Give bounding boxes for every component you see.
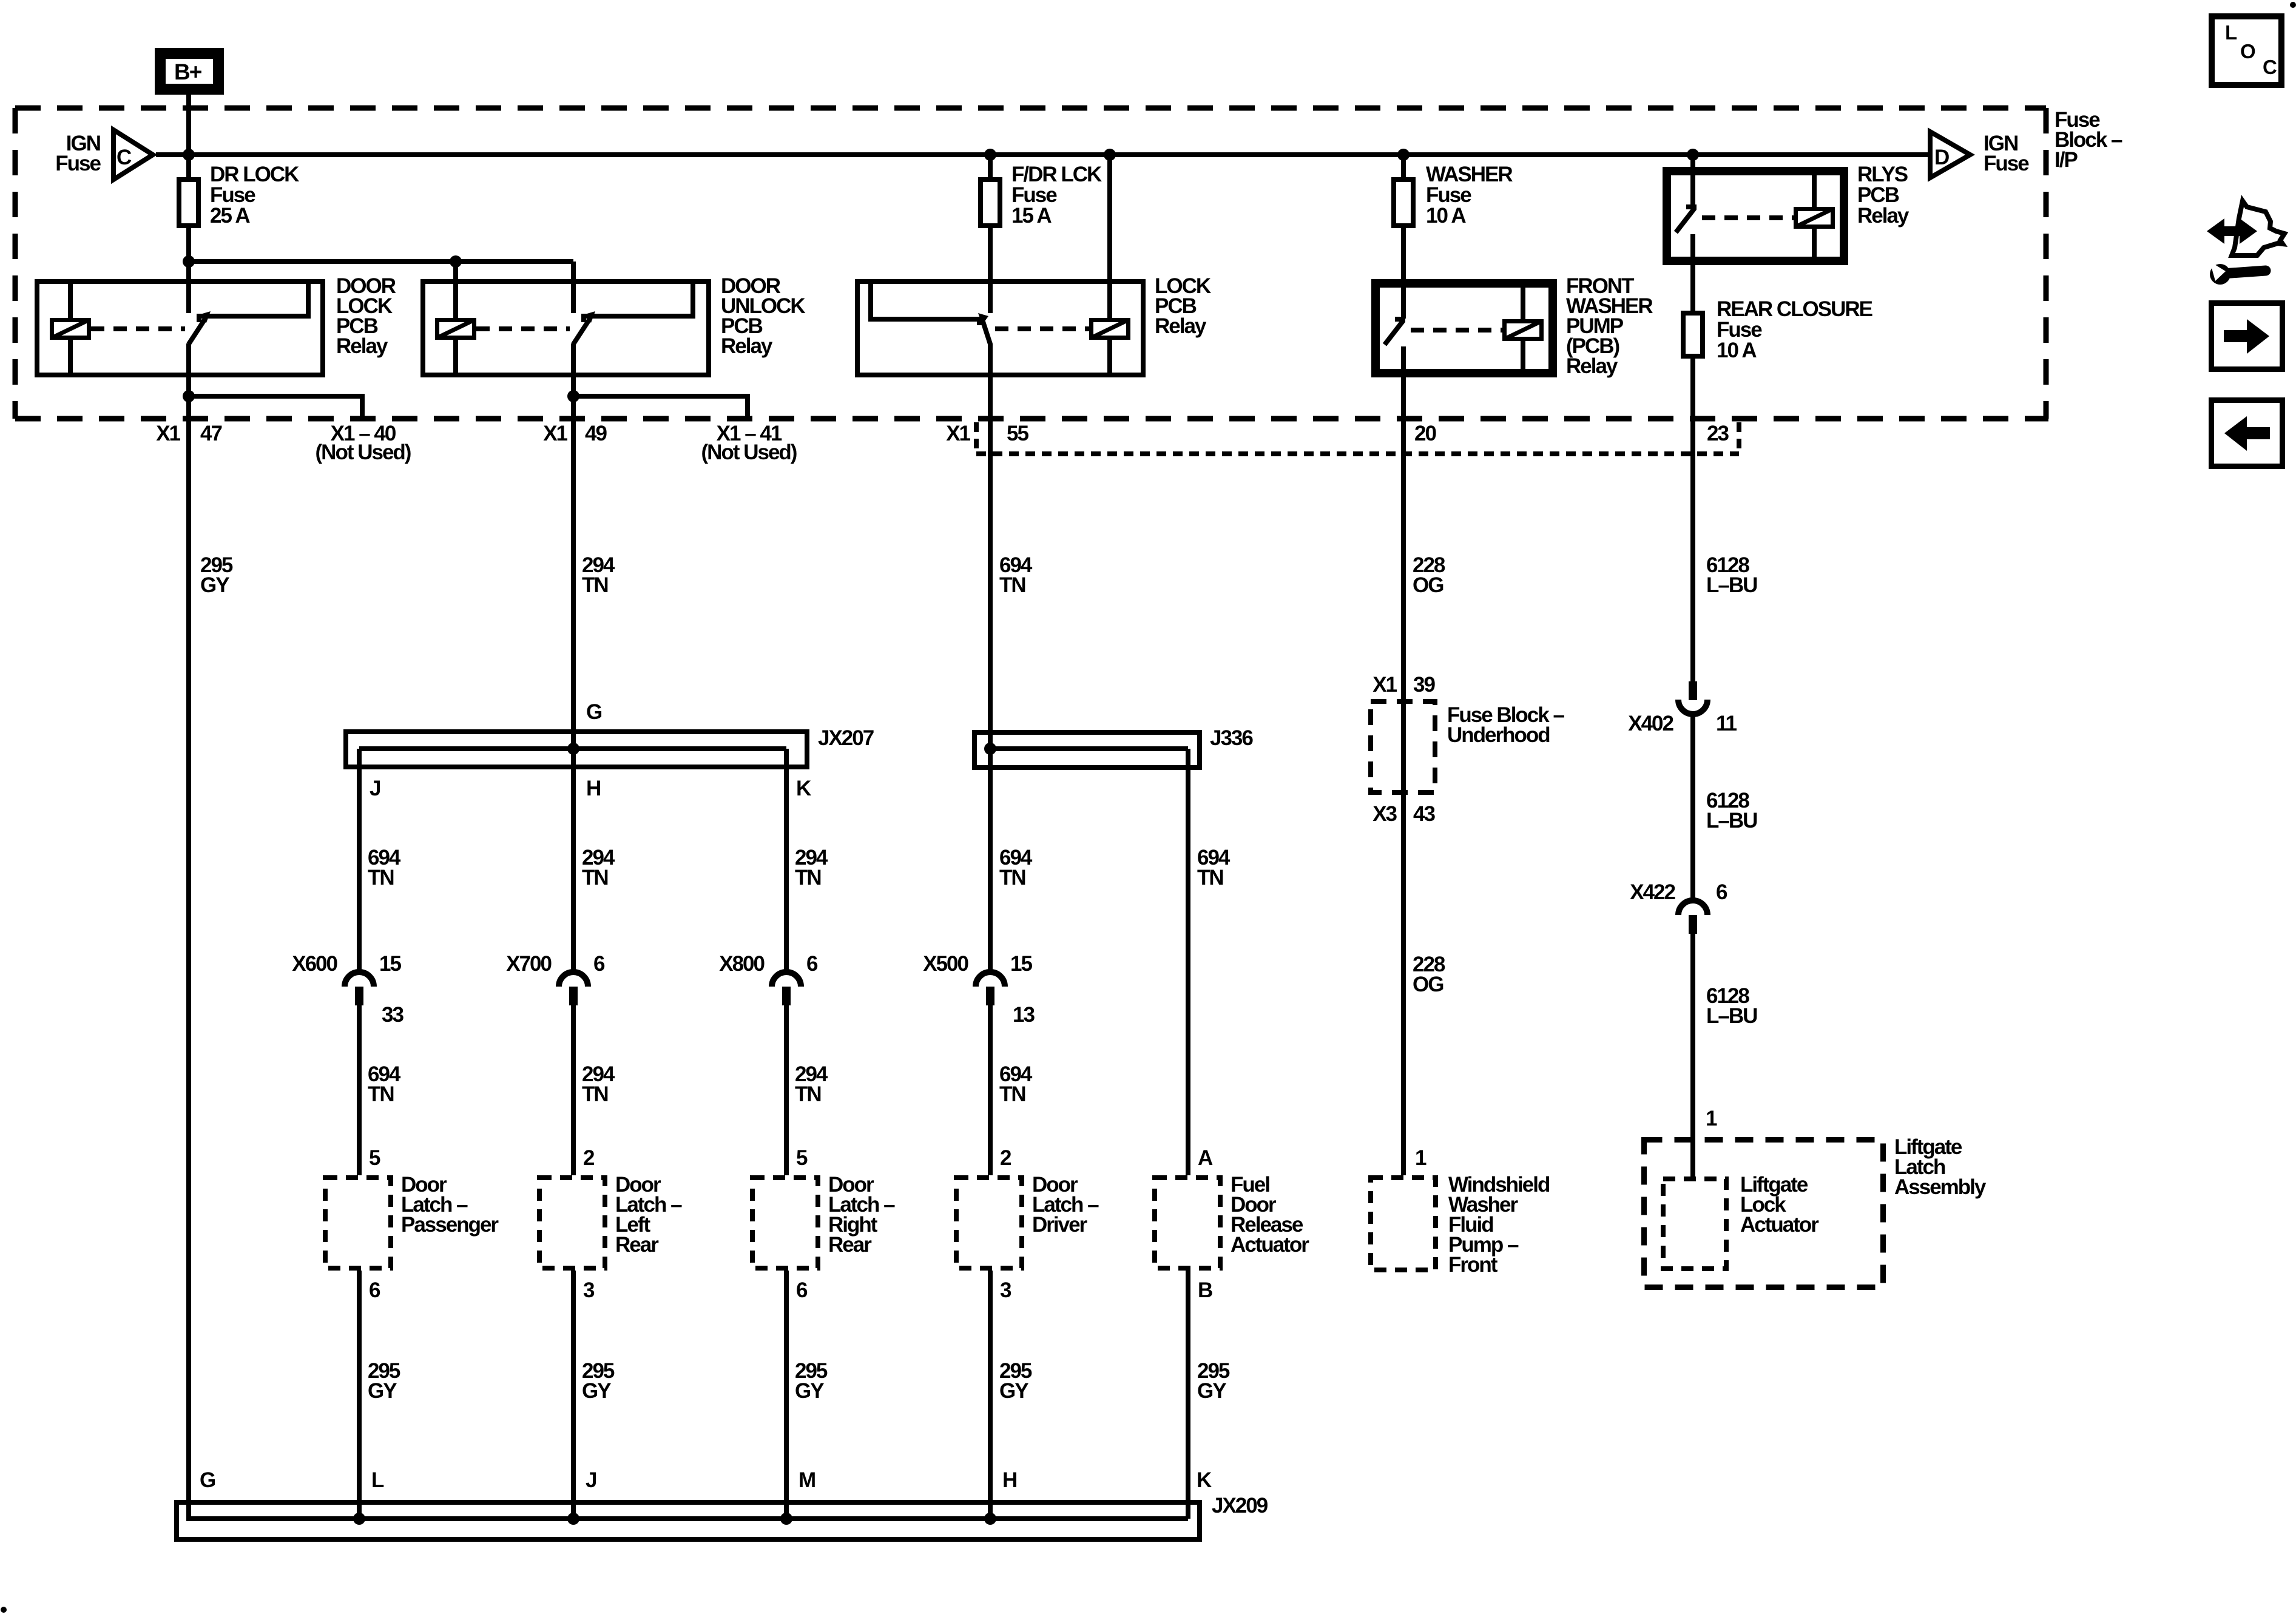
wire underhood block to washer pump (1401, 795, 1406, 1175)
svg-text:X422: X422 (1630, 880, 1675, 904)
svg-text:5: 5 (796, 1146, 808, 1170)
svg-text:X500: X500 (923, 952, 968, 976)
svg-text:Fuse: Fuse (1984, 152, 2029, 175)
junction dot JX209 J (567, 1513, 579, 1525)
svg-text:20: 20 (1414, 422, 1436, 445)
stub to X1-41 not used (573, 396, 748, 417)
svg-text:OG: OG (1413, 573, 1443, 597)
splice pack J336 outer box (974, 732, 1200, 768)
DOOR LOCK relay box (37, 282, 323, 375)
wire washer relay output (1401, 346, 1406, 699)
svg-text:TN: TN (582, 573, 608, 597)
svg-text:GY: GY (200, 573, 229, 597)
FRONT WASHER PUMP relay coil (1521, 282, 1525, 319)
svg-text:TN: TN (999, 866, 1025, 890)
svg-text:6: 6 (806, 952, 818, 976)
svg-text:10 A: 10 A (1717, 339, 1757, 362)
svg-text:1: 1 (1415, 1146, 1427, 1170)
wire through underhood fuse block (1401, 699, 1406, 795)
body repair icon panel outline (2232, 201, 2284, 255)
svg-text:Underhood: Underhood (1447, 723, 1550, 747)
DOOR UNLOCK relay coil-contact dashed link (476, 326, 570, 331)
svg-text:49: 49 (585, 422, 607, 445)
svg-text:X1: X1 (1373, 673, 1397, 697)
splice pack JX207 inner bus line (359, 746, 786, 751)
Fuse Block - I/P dashed border right (2044, 108, 2049, 419)
wire 295 GY column X1-47 down to JX209 (186, 396, 191, 1519)
svg-text:(Not Used): (Not Used) (701, 441, 797, 464)
junction dot X1-49 branch (567, 390, 579, 402)
JX207 leg J (357, 749, 362, 853)
wire IGN line into RLYS relay switch (1690, 155, 1695, 206)
wire unlock switch feed drop (571, 262, 576, 313)
svg-text:K: K (1197, 1468, 1212, 1492)
splice pack JX207 outer box (346, 732, 807, 767)
svg-text:J: J (586, 1468, 596, 1492)
Fuel Door Release Actuator dashed box (1155, 1178, 1220, 1268)
svg-text:43: 43 (1413, 802, 1435, 826)
svg-text:GY: GY (582, 1379, 611, 1403)
svg-text:6: 6 (796, 1278, 808, 1302)
dotted connector bottom line (976, 451, 1739, 456)
svg-text:X1: X1 (946, 422, 970, 445)
wire leg J to X600 (357, 848, 362, 972)
inline connector X800 pin 6 (772, 972, 801, 987)
DOOR UNLOCK relay box (423, 282, 709, 375)
Door Latch - Passenger dashed box (325, 1178, 391, 1268)
RLYS relay switch arm (1686, 204, 1697, 209)
junction dot X1-47 branch (183, 390, 195, 402)
junction dot WASHER fuse tap (1397, 149, 1410, 161)
wire door unlock relay output (571, 343, 576, 396)
svg-text:H: H (1002, 1468, 1016, 1492)
wire WASHER fuse to washer relay switch (1401, 228, 1406, 319)
body repair icon wrench (2210, 264, 2230, 285)
splice pack JX209 outer box (177, 1502, 1200, 1539)
svg-text:X600: X600 (292, 952, 337, 976)
svg-text:3: 3 (1000, 1278, 1011, 1302)
svg-text:Front: Front (1448, 1253, 1498, 1277)
svg-text:2: 2 (1000, 1146, 1011, 1170)
Liftgate Lock Actuator dashed box (1663, 1179, 1726, 1269)
wire fuel door release to JX209 (1186, 1271, 1190, 1519)
svg-text:GY: GY (368, 1379, 397, 1403)
svg-text:Relay: Relay (336, 334, 388, 358)
FRONT WASHER PUMP relay box (1374, 282, 1555, 375)
wire rear closure fuse down to X402 (1690, 359, 1695, 681)
wire B+ to IGN line (186, 95, 191, 155)
wire X500 to door latch driver (988, 1005, 993, 1175)
wire X402 to X422 (1690, 714, 1695, 900)
svg-text:10 A: 10 A (1426, 204, 1466, 228)
svg-text:L–BU: L–BU (1706, 573, 1757, 597)
dashed connector stub right of pin 23 (1737, 422, 1741, 454)
svg-text:TN: TN (368, 866, 394, 890)
wire X600 to door latch passenger (357, 1005, 362, 1175)
svg-text:TN: TN (1197, 866, 1223, 890)
forward reference arrow box (2212, 303, 2283, 370)
svg-text:C: C (2263, 56, 2277, 78)
B+ battery feed box (159, 52, 220, 91)
wire left rear latch to JX209 (571, 1271, 576, 1519)
svg-text:X3: X3 (1373, 802, 1397, 826)
wire RLYS relay output to rear closure fuse (1690, 234, 1695, 311)
REAR CLOSURE fuse 10A (1683, 313, 1703, 356)
svg-text:Relay: Relay (721, 334, 773, 358)
svg-text:5: 5 (369, 1146, 380, 1170)
splice pack J336 inner bus line (990, 746, 1188, 751)
svg-text:Actuator: Actuator (1740, 1213, 1819, 1237)
svg-text:15: 15 (379, 952, 401, 976)
wire col X500 down (988, 749, 993, 972)
DOOR LOCK relay switch arm (189, 318, 206, 344)
svg-text:6: 6 (1716, 880, 1727, 904)
JX207 leg K (784, 749, 789, 853)
svg-text:Relay: Relay (1566, 354, 1618, 378)
Liftgate Latch Assembly dashed box (1644, 1140, 1883, 1288)
svg-text:Assembly: Assembly (1894, 1175, 1987, 1199)
IGN Fuse input triangle C (113, 130, 153, 180)
svg-text:L–BU: L–BU (1706, 1004, 1757, 1028)
RLYS relay box (1665, 169, 1846, 263)
IGN Fuse output triangle D (1930, 132, 1970, 178)
svg-text:Rear: Rear (615, 1233, 659, 1257)
wire col H through JX207 (571, 749, 576, 853)
svg-text:11: 11 (1716, 712, 1737, 735)
wire X700 to door latch left rear (571, 1005, 576, 1175)
DOOR LOCK relay coil-contact dashed link (91, 326, 185, 331)
svg-text:Fuse: Fuse (55, 152, 101, 175)
wire DR LOCK fuse to branch junction (186, 228, 191, 262)
svg-text:6: 6 (593, 952, 605, 976)
wire leg K to X800 (784, 848, 789, 972)
wire 294 TN column X1-49 down to JX207 (571, 396, 576, 749)
junction dot JX209 L (353, 1513, 365, 1525)
wire right rear latch to JX209 (784, 1271, 789, 1519)
wire IGN line to WASHER fuse (1401, 155, 1406, 177)
wire leg H to X700 (571, 848, 576, 972)
LOCK relay switch arm (982, 320, 990, 344)
svg-text:J: J (370, 777, 380, 800)
page artifact bottom left (1, 1607, 7, 1613)
Door Latch - Right Rear dashed box (752, 1178, 818, 1268)
svg-text:47: 47 (200, 422, 221, 445)
svg-text:X402: X402 (1628, 712, 1673, 735)
svg-text:X1: X1 (156, 422, 180, 445)
junction dot unlock coil feed (450, 255, 462, 268)
svg-text:X700: X700 (506, 952, 552, 976)
svg-text:H: H (586, 777, 600, 800)
svg-text:33: 33 (382, 1003, 403, 1027)
svg-text:TN: TN (795, 866, 821, 890)
svg-text:L: L (2225, 21, 2237, 44)
svg-text:JX209: JX209 (1212, 1494, 1268, 1517)
svg-text:Relay: Relay (1857, 204, 1909, 228)
svg-text:A: A (1198, 1146, 1213, 1170)
svg-text:C: C (116, 146, 132, 169)
junction dot JX209 H (984, 1513, 996, 1525)
wire F/DR LCK fuse to lock relay switch (988, 228, 993, 313)
WASHER fuse 10A (1394, 180, 1413, 226)
svg-text:15: 15 (1010, 952, 1032, 976)
page artifact top right (2290, 2, 2296, 8)
svg-text:X800: X800 (719, 952, 765, 976)
wire branch to door unlock relay feed (189, 259, 573, 264)
svg-text:I/P: I/P (2055, 148, 2078, 172)
Fuse Block - I/P dashed border top (15, 106, 2046, 111)
wire driver latch to JX209 (988, 1271, 993, 1519)
junction dot F/DR LCK fuse tap (984, 149, 996, 161)
svg-text:GY: GY (795, 1379, 824, 1403)
FRONT WASHER PUMP relay switch arm (1395, 317, 1405, 322)
svg-text:K: K (796, 777, 811, 800)
wire door lock relay output (186, 343, 191, 396)
IGN feed line (C to D) (156, 152, 1928, 157)
junction dot J336 (984, 743, 996, 755)
splice pack JX209 inner bus line (G feed) (189, 1500, 1188, 1519)
wire fuel door col down to latch (1186, 848, 1190, 1175)
inline connector X402 pin 11 (1689, 681, 1697, 700)
svg-text:55: 55 (1007, 422, 1028, 445)
wire X422 to liftgate latch (1690, 933, 1695, 1176)
svg-text:1: 1 (1706, 1107, 1717, 1130)
svg-text:13: 13 (1013, 1003, 1035, 1027)
Fuse Block - Underhood dashed box (1371, 701, 1435, 792)
svg-text:B+: B+ (174, 59, 202, 84)
backward reference arrow box (2212, 400, 2283, 467)
wire lock relay coil feed (1107, 155, 1112, 318)
body repair icon double arrow (2207, 218, 2257, 244)
J336 right leg down (1186, 749, 1190, 853)
junction dot RLYS relay tap (1687, 149, 1699, 161)
F/DR LCK fuse 15A (981, 180, 1000, 226)
svg-text:O: O (2240, 40, 2255, 62)
DOOR UNLOCK relay switch arm (573, 318, 590, 344)
Door Latch - Left Rear dashed box (539, 1178, 605, 1268)
Door Latch - Driver dashed box (956, 1178, 1022, 1268)
DOOR LOCK relay fixed contact path (199, 282, 308, 322)
svg-text:L: L (371, 1468, 384, 1492)
inline connector X600 pin 15 (345, 972, 374, 987)
DOOR LOCK relay coil (68, 282, 73, 318)
wire lock relay output (988, 343, 993, 749)
LOCK relay coil (1107, 282, 1112, 318)
junction dot door lock branch (183, 255, 195, 268)
wire door lock switch feed (186, 262, 191, 313)
svg-text:M: M (799, 1468, 815, 1492)
svg-text:L–BU: L–BU (1706, 809, 1757, 832)
svg-text:G: G (200, 1468, 215, 1492)
junction dot lock relay coil tap (1104, 149, 1116, 161)
DR LOCK fuse 25A (179, 180, 198, 226)
svg-text:GY: GY (1197, 1379, 1226, 1403)
FRONT WASHER PUMP relay coil-contact dashed link (1411, 328, 1502, 333)
junction dot JX209 M (780, 1513, 792, 1525)
wire passenger latch to JX209 (357, 1271, 362, 1519)
stub to X1-40 not used (189, 396, 362, 417)
svg-text:JX207: JX207 (818, 726, 874, 750)
inline connector X500 pin 15 (976, 972, 1005, 987)
svg-text:B: B (1198, 1278, 1212, 1302)
svg-text:TN: TN (795, 1082, 821, 1106)
wire unlock coil feed drop (453, 262, 458, 318)
svg-text:OG: OG (1413, 973, 1443, 996)
inline connector X700 pin 6 (559, 972, 588, 987)
wire X800 to door latch right rear (784, 1005, 789, 1175)
svg-text:25 A: 25 A (210, 204, 250, 228)
svg-text:TN: TN (582, 1082, 608, 1106)
svg-text:TN: TN (999, 573, 1025, 597)
Windshield Washer Fluid Pump dashed box (1371, 1178, 1436, 1270)
svg-text:G: G (586, 700, 602, 724)
svg-text:39: 39 (1413, 673, 1435, 697)
svg-text:J336: J336 (1210, 726, 1253, 750)
LOC reference box (2212, 16, 2281, 85)
wire IGN line to DR LOCK fuse (186, 155, 191, 177)
Fuse Block - I/P dashed border bottom (15, 416, 2048, 422)
svg-text:15 A: 15 A (1011, 204, 1052, 228)
junction dot B+ / IGN line (183, 149, 195, 161)
LOCK relay fixed contact path (871, 282, 979, 325)
svg-text:Rear: Rear (828, 1233, 872, 1257)
svg-text:2: 2 (583, 1146, 595, 1170)
Fuse Block - I/P dashed border left (13, 108, 18, 419)
DOOR UNLOCK relay coil (453, 282, 458, 318)
LOCK relay coil-contact dashed link (995, 326, 1089, 331)
DOOR UNLOCK relay fixed contact path (584, 282, 693, 322)
svg-text:X1: X1 (543, 422, 567, 445)
RLYS relay coil (1812, 169, 1817, 207)
dashed connector stub left of pin 55 (974, 422, 979, 454)
svg-text:GY: GY (999, 1379, 1028, 1403)
svg-text:TN: TN (368, 1082, 394, 1106)
RLYS relay coil-contact dashed link (1702, 215, 1794, 220)
svg-text:TN: TN (999, 1082, 1025, 1106)
svg-text:23: 23 (1707, 422, 1729, 445)
svg-text:3: 3 (583, 1278, 595, 1302)
wire IGN line to F/DR LCK fuse (988, 155, 993, 177)
svg-text:Actuator: Actuator (1231, 1233, 1309, 1257)
svg-text:TN: TN (582, 866, 608, 890)
svg-text:D: D (1934, 146, 1949, 169)
LOCK relay box (857, 282, 1143, 375)
svg-text:Relay: Relay (1155, 314, 1207, 338)
svg-text:6: 6 (369, 1278, 380, 1302)
svg-text:Driver: Driver (1032, 1213, 1088, 1237)
junction dot JX207 H (567, 743, 579, 755)
svg-text:(Not Used): (Not Used) (316, 441, 411, 464)
inline connector X422 pin 6 (1678, 900, 1707, 915)
svg-text:Passenger: Passenger (401, 1213, 499, 1237)
